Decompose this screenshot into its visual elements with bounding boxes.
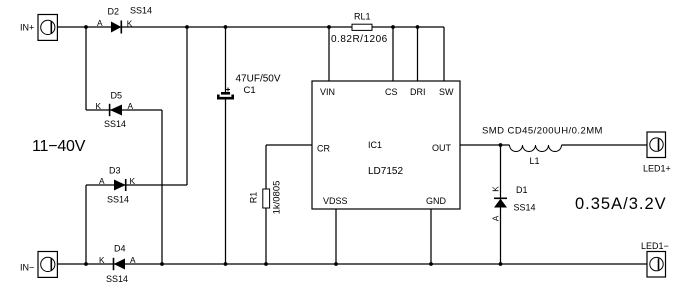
diode D4 xyxy=(114,258,126,270)
svg-text:A: A xyxy=(130,255,136,265)
svg-text:C1: C1 xyxy=(244,85,256,96)
svg-text:L1: L1 xyxy=(530,156,540,166)
junction top rail at CS xyxy=(391,25,395,29)
diode D1 xyxy=(494,198,507,207)
svg-text:CS: CS xyxy=(385,87,398,97)
wire CR to R1 top xyxy=(265,145,267,189)
wire VDSS pin to rail xyxy=(335,209,337,264)
junction top rail at DRI xyxy=(416,25,420,29)
svg-text:11−40V: 11−40V xyxy=(32,138,86,155)
svg-text:K: K xyxy=(96,101,102,111)
svg-text:VIN: VIN xyxy=(320,87,335,97)
wire C1 branch upper xyxy=(225,27,227,92)
svg-text:GND: GND xyxy=(426,196,447,206)
svg-text:SS14: SS14 xyxy=(130,6,152,16)
svg-text:D2: D2 xyxy=(108,7,120,17)
wire D3 row xyxy=(86,184,187,186)
svg-text:D3: D3 xyxy=(109,166,121,176)
wire GND pin to rail xyxy=(430,209,432,264)
svg-text:D1: D1 xyxy=(516,185,528,195)
capacitor C1 plus mark xyxy=(226,88,230,92)
wire C1 branch lower xyxy=(225,99,227,264)
svg-text:D5: D5 xyxy=(111,91,123,101)
svg-text:SS14: SS14 xyxy=(106,274,128,284)
capacitor C1 bottom plate xyxy=(217,95,234,100)
wire VIN pin drop xyxy=(328,27,330,81)
junction bottom rail at GND xyxy=(429,262,433,266)
wire SW pin drop xyxy=(443,27,445,81)
resistor R1 xyxy=(263,189,270,208)
junction OUT node at D1/L1 xyxy=(499,143,503,147)
junction bottom rail at D3 branch xyxy=(84,262,88,266)
svg-text:SS14: SS14 xyxy=(104,119,126,129)
svg-text:SS14: SS14 xyxy=(107,195,129,205)
svg-text:LD7152: LD7152 xyxy=(368,166,403,177)
svg-text:K: K xyxy=(130,176,136,186)
connector IN- xyxy=(38,252,57,278)
junction bottom rail at C1 xyxy=(224,262,228,266)
connector LED1- xyxy=(647,252,666,278)
svg-text:LED1−: LED1− xyxy=(641,241,669,251)
svg-text:SMD CD45/200UH/0.2MM: SMD CD45/200UH/0.2MM xyxy=(482,126,603,137)
junction top rail at C1 branch xyxy=(224,25,228,29)
svg-text:A: A xyxy=(99,176,105,186)
diode D5 xyxy=(110,104,122,116)
diode D2 xyxy=(111,21,121,34)
capacitor C1 top plate xyxy=(221,92,230,95)
wire D5 row xyxy=(86,109,162,111)
svg-text:K: K xyxy=(127,19,133,29)
svg-text:CR: CR xyxy=(317,144,330,154)
wire OUT pin to L1 xyxy=(460,144,510,146)
junction bottom rail at R1 xyxy=(264,262,268,266)
svg-text:SW: SW xyxy=(439,87,454,97)
junction top rail at VIN xyxy=(327,25,331,29)
junction top rail at D5 branch xyxy=(84,25,88,29)
svg-text:IC1: IC1 xyxy=(368,140,382,150)
wire CR pin horizontal xyxy=(266,144,312,146)
svg-text:47UF/50V: 47UF/50V xyxy=(236,74,281,85)
svg-text:A: A xyxy=(97,18,103,28)
svg-text:D4: D4 xyxy=(114,244,126,254)
svg-text:A: A xyxy=(491,215,501,221)
junction bottom rail at D1 xyxy=(499,262,503,266)
inductor L1 xyxy=(510,145,562,152)
svg-text:SS14: SS14 xyxy=(514,203,536,213)
svg-text:K: K xyxy=(99,255,105,265)
svg-text:IN+: IN+ xyxy=(20,23,34,33)
svg-text:1k/0805: 1k/0805 xyxy=(272,181,283,215)
svg-text:R1: R1 xyxy=(249,192,259,204)
wire D5 K branch vertical xyxy=(85,27,87,110)
svg-text:A: A xyxy=(128,101,134,111)
svg-text:VDSS: VDSS xyxy=(323,196,348,206)
svg-text:RL1: RL1 xyxy=(354,12,371,22)
wire D3 K branch vertical xyxy=(186,27,188,185)
svg-text:K: K xyxy=(491,186,501,192)
svg-text:OUT: OUT xyxy=(432,143,452,153)
wire CS pin drop xyxy=(392,27,394,81)
junction bottom rail at VDSS xyxy=(334,262,338,266)
junction top rail at D3 branch xyxy=(185,25,189,29)
svg-text:0.35A/3.2V: 0.35A/3.2V xyxy=(575,195,667,213)
resistor RL1 xyxy=(352,24,372,30)
wire D1 branch vertical xyxy=(500,145,502,264)
wire D3 A to bottom rail vertical xyxy=(85,185,87,264)
diode D3 xyxy=(114,179,126,191)
op-amp IC1 LD7152 box xyxy=(312,81,460,209)
svg-text:DRI: DRI xyxy=(410,87,426,97)
wire top rail xyxy=(58,26,445,28)
wire L1 to LED1+ xyxy=(562,144,648,146)
svg-text:0.82R/1206: 0.82R/1206 xyxy=(331,34,388,45)
connector LED1+ xyxy=(647,132,666,158)
wire R1 bottom to rail xyxy=(265,208,267,264)
junction bottom rail at D5 branch xyxy=(160,262,164,266)
svg-text:IN−: IN− xyxy=(20,263,34,273)
wire DRI pin drop xyxy=(417,27,419,81)
svg-text:LED1+: LED1+ xyxy=(643,164,671,174)
wire bottom rail xyxy=(58,263,647,265)
wire D5 A to bottom rail vertical xyxy=(161,110,163,264)
connector IN+ xyxy=(38,15,57,41)
